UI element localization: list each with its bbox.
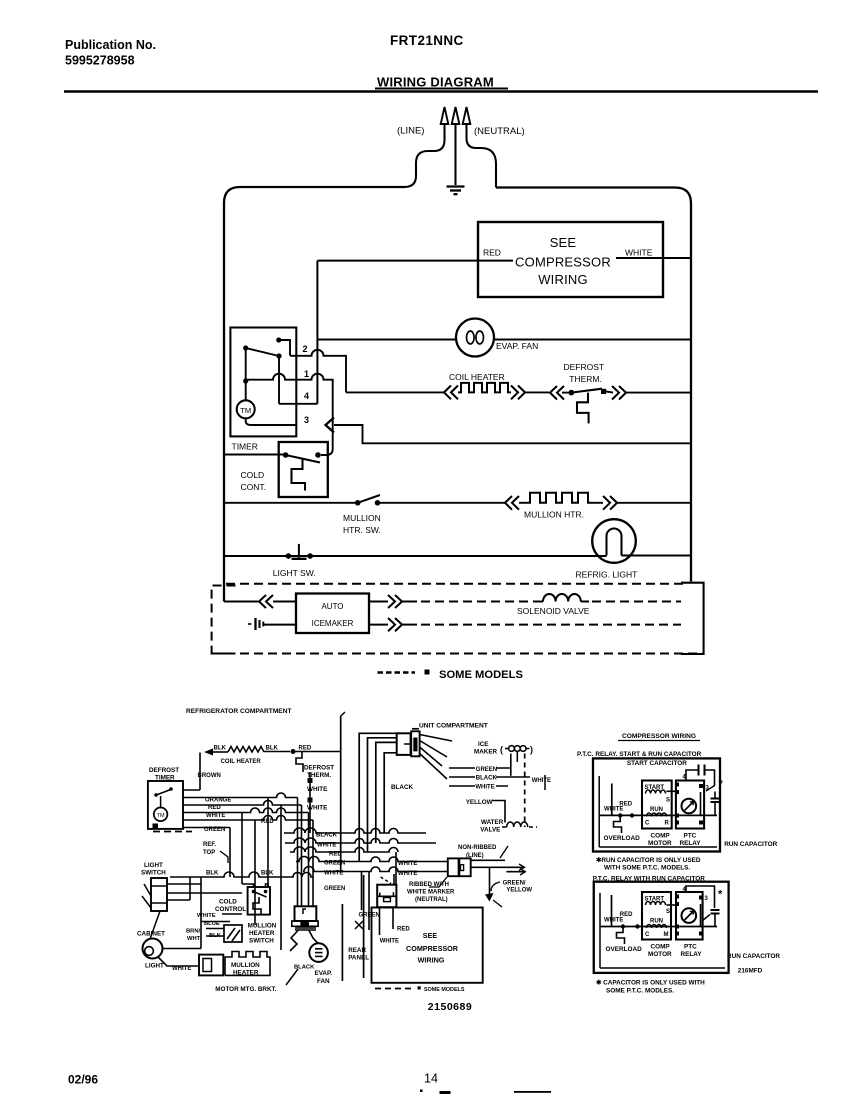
svg-text:WITH SOME P.T.C. MODELS.: WITH SOME P.T.C. MODELS. xyxy=(604,865,690,872)
wire light rail xyxy=(224,555,691,558)
label WATER VALVE xyxy=(480,819,503,834)
timer motor TM xyxy=(237,400,255,418)
svg-text:*: * xyxy=(719,778,724,790)
mullion heater bracket castellated xyxy=(225,952,270,976)
wire neutral-side plug lead xyxy=(467,138,497,188)
svg-text:BLACK: BLACK xyxy=(391,784,413,791)
svg-text:4: 4 xyxy=(304,391,309,401)
resistor coil heater pictorial xyxy=(213,747,290,753)
wire bundle nested L1 xyxy=(359,733,397,861)
see compressor wiring box xyxy=(372,908,483,983)
label CABINET xyxy=(137,931,165,938)
svg-text:02/96: 02/96 xyxy=(68,1073,98,1087)
svg-text:RED: RED xyxy=(483,248,501,258)
label BLK rail left xyxy=(206,871,219,877)
plug prong neutral arrow xyxy=(463,107,471,138)
label BLK right xyxy=(266,746,279,752)
pin number 1 xyxy=(304,369,309,379)
svg-text:AUTO: AUTO xyxy=(321,602,343,611)
svg-text:WHITE: WHITE xyxy=(398,861,417,867)
wire cord line out xyxy=(471,859,505,861)
svg-text:RUN CAPACITOR: RUN CAPACITOR xyxy=(724,841,777,848)
svg-text:WHITE: WHITE xyxy=(398,871,417,877)
wire bundle nested L2 xyxy=(368,738,397,852)
wire drop x255 to mullion switch xyxy=(254,820,256,925)
connector arrows left of mullion heater xyxy=(505,496,527,510)
label WHITE right xyxy=(532,778,551,784)
label BLACK stack xyxy=(476,776,498,782)
header model number xyxy=(390,33,464,48)
water valve coil xyxy=(502,822,537,827)
svg-text:SOME MODELS: SOME MODELS xyxy=(424,987,465,993)
wire bundle nested L4 xyxy=(384,753,397,833)
unit compartment connector body xyxy=(397,729,420,757)
svg-text:CABINET: CABINET xyxy=(137,931,165,938)
white lead 2 xyxy=(604,895,633,927)
svg-text:MOTOR MTG. BRKT.: MOTOR MTG. BRKT. xyxy=(215,986,276,993)
main wire 1 xyxy=(599,813,717,817)
label WHITE cabinet xyxy=(172,966,191,972)
label BLK small xyxy=(209,933,222,939)
label PTC RELAY START AND RUN CAPACITOR xyxy=(577,751,702,758)
footer date xyxy=(68,1073,98,1087)
defrost therm pictorial xyxy=(296,752,334,834)
svg-text:THERM.: THERM. xyxy=(569,374,602,384)
wire bundle nested L3 xyxy=(376,742,397,843)
svg-text:MAKER: MAKER xyxy=(474,749,498,756)
wire timer rail orange xyxy=(183,793,298,798)
lamp cabinet light xyxy=(143,939,163,959)
dashed left bracket xyxy=(212,586,236,654)
svg-text:NON-RIBBED: NON-RIBBED xyxy=(458,845,497,851)
dashed wire bottom rail to bracket xyxy=(421,624,681,626)
label REAR PANEL left xyxy=(348,921,369,962)
asterisk 2 xyxy=(718,889,723,901)
legend some models xyxy=(378,669,524,681)
svg-text:(LINE): (LINE) xyxy=(397,126,424,137)
svg-text:WHITE: WHITE xyxy=(307,805,327,812)
svg-text:SOME MODELS: SOME MODELS xyxy=(439,669,523,681)
plug prong line arrow xyxy=(441,107,449,140)
solenoid valve coil xyxy=(534,594,589,602)
label COMP MOTOR 2 xyxy=(648,944,672,959)
timer switch blade xyxy=(246,348,279,356)
wire contact 4 branch xyxy=(279,356,317,404)
label RED xyxy=(299,746,312,752)
svg-text:GREEN: GREEN xyxy=(324,886,345,892)
run capacitor symbol 1 xyxy=(711,792,720,816)
overload 2 xyxy=(606,927,643,954)
connector arrows right of coil heater xyxy=(511,386,549,400)
ground symbol xyxy=(447,187,465,195)
label START CAPACITOR xyxy=(627,760,687,767)
main cabinet outline right xyxy=(496,188,691,582)
svg-text:SWITCH: SWITCH xyxy=(249,938,274,945)
label SOLENOID VALVE xyxy=(517,606,590,616)
svg-text:DEFROST: DEFROST xyxy=(304,765,334,772)
wire yellow xyxy=(492,801,505,823)
label MULLION HTR. SW. xyxy=(343,513,381,535)
wire red to unit bundle xyxy=(296,751,341,753)
svg-text:BLACK: BLACK xyxy=(476,776,498,782)
defrost timer box xyxy=(230,328,296,437)
svg-text:MULLION HTR.: MULLION HTR. xyxy=(524,510,584,520)
svg-text:WHITE: WHITE xyxy=(206,813,225,819)
svg-text:RUN: RUN xyxy=(650,919,663,925)
node LINE label xyxy=(397,126,424,137)
svg-text:YELLOW: YELLOW xyxy=(466,799,493,806)
svg-text:DEFROST: DEFROST xyxy=(149,767,179,774)
svg-text:LIGHT: LIGHT xyxy=(145,963,164,970)
svg-text:REF.: REF. xyxy=(203,842,216,848)
svg-text:WHITE: WHITE xyxy=(307,786,327,793)
wire rail white2 xyxy=(303,867,447,878)
svg-text:Publication No.: Publication No. xyxy=(65,38,156,52)
capacitor loop 2 xyxy=(686,886,720,927)
svg-text:WHITE: WHITE xyxy=(532,778,551,784)
label EVAP FAN xyxy=(315,970,333,985)
wire timer rail green xyxy=(183,816,313,821)
wire timer rail green2 xyxy=(183,827,230,829)
small connector above compressor box xyxy=(377,885,396,908)
wire line-side plug lead xyxy=(404,140,445,187)
svg-text:FAN: FAN xyxy=(317,978,330,985)
svg-text:*: * xyxy=(718,889,723,901)
svg-text:COIL HEATER: COIL HEATER xyxy=(221,759,262,765)
svg-text:2: 2 xyxy=(303,344,308,354)
label COIL HEATER pictorial xyxy=(221,759,262,765)
svg-text:MULLION: MULLION xyxy=(343,513,381,523)
svg-text:EVAP. FAN: EVAP. FAN xyxy=(496,341,538,351)
cold control box xyxy=(279,442,328,497)
svg-text:DEFROST: DEFROST xyxy=(564,362,605,372)
cold control contacts xyxy=(283,452,321,462)
label COMP MOTOR 1 xyxy=(648,833,672,848)
label LIGHT cabinet xyxy=(145,963,164,970)
label ORANGE xyxy=(205,798,231,804)
wire cord ground drop xyxy=(485,867,502,907)
wire evap fan rail xyxy=(317,339,691,341)
comp motor box 2 xyxy=(642,892,671,940)
timer contact dots xyxy=(243,337,282,383)
label RUN CAPACITOR 1 xyxy=(724,841,777,848)
label RED timer xyxy=(208,805,221,811)
note run capacitor only used xyxy=(596,857,701,872)
main wire 2 xyxy=(600,924,717,928)
wire cord out arrows xyxy=(471,864,526,875)
svg-text:P.T.C. RELAY. START & RUN CAPA: P.T.C. RELAY. START & RUN CAPACITOR xyxy=(577,751,702,758)
svg-text:ICEMAKER: ICEMAKER xyxy=(312,619,354,628)
label MOTOR MTG. BRKT. xyxy=(215,986,276,993)
label BROWN xyxy=(198,773,221,779)
cold control pictorial xyxy=(248,887,270,915)
connector arrows right of defrost therm xyxy=(612,386,691,400)
white lead 1 xyxy=(604,784,633,816)
svg-text:OVERLOAD: OVERLOAD xyxy=(606,946,643,953)
footer mark xyxy=(420,1090,423,1093)
dashed some-models bottom rail xyxy=(212,653,703,655)
label LIGHT SWITCH xyxy=(141,862,166,877)
label NON-RIBBED (LINE) xyxy=(458,845,508,859)
wire timer rail white xyxy=(183,808,309,813)
wire dashes into small connector xyxy=(381,874,394,885)
main cabinet outline left xyxy=(224,187,405,602)
wire light switch mid xyxy=(168,892,242,894)
label RED mid xyxy=(261,819,274,825)
svg-text:(NEUTRAL): (NEUTRAL) xyxy=(474,126,525,137)
wires at icemaker stack xyxy=(449,752,545,791)
svg-text:PTC: PTC xyxy=(684,944,697,951)
asterisk 1 xyxy=(719,778,724,790)
wire cabinet light to bus xyxy=(158,949,201,967)
wire contact 3 to right edge xyxy=(334,425,691,443)
svg-text:RED: RED xyxy=(208,805,221,811)
svg-text:COMP: COMP xyxy=(651,944,671,951)
label BLK rail right xyxy=(261,871,274,877)
mullion heater switch pictorial xyxy=(224,925,242,942)
connector arrows left of coil heater xyxy=(444,386,458,400)
node NEUTRAL label xyxy=(474,126,525,137)
svg-text:M: M xyxy=(664,932,669,938)
svg-text:): ) xyxy=(530,745,533,755)
wire rail black xyxy=(284,828,426,839)
wire coil heater rail left xyxy=(346,391,444,393)
svg-text:HEATER: HEATER xyxy=(249,930,275,937)
wire drop x242 to cold control left xyxy=(241,813,243,885)
light switch pictorial xyxy=(142,878,167,911)
wire timer rail red xyxy=(183,801,302,806)
dashed wire to solenoid xyxy=(421,601,534,603)
label COLD CONT. xyxy=(241,470,267,492)
label GREEN above plug xyxy=(324,886,345,892)
junction dot red xyxy=(291,749,296,754)
svg-text:WHT: WHT xyxy=(187,936,201,942)
right bracket xyxy=(681,583,704,654)
svg-text:REFRIGERATOR COMPARTMENT: REFRIGERATOR COMPARTMENT xyxy=(186,708,292,715)
wire mullion rail middle xyxy=(378,502,506,504)
wire drop x268 to cold control xyxy=(267,798,269,888)
terminal 4 label xyxy=(683,775,687,781)
label PTC RELAY 2 xyxy=(681,944,703,959)
ground icemaker xyxy=(248,618,296,630)
svg-text:MULLION: MULLION xyxy=(248,923,277,930)
motor evap fan xyxy=(456,319,494,357)
svg-text:BLK: BLK xyxy=(214,746,227,752)
label MULLION HTR. xyxy=(524,510,584,520)
svg-text:TIMER: TIMER xyxy=(232,442,258,452)
label DEFROST TIMER (pictorial) xyxy=(149,767,179,782)
svg-text:BROWN: BROWN xyxy=(198,773,221,779)
svg-text:PANEL: PANEL xyxy=(348,955,369,962)
svg-text:CONT.: CONT. xyxy=(241,482,267,492)
svg-text:SEE: SEE xyxy=(550,235,577,250)
wire timer common vertical to TM xyxy=(245,348,247,400)
label GREEN YELLOW cord xyxy=(491,881,532,894)
label WHITE stack xyxy=(475,785,494,791)
svg-text:216MFD: 216MFD xyxy=(738,968,763,975)
start capacitor symbol 1 xyxy=(686,765,715,792)
svg-text:PTC: PTC xyxy=(684,833,697,840)
note capacitor only used 2 xyxy=(596,980,705,995)
wires connector to icemaker xyxy=(420,735,452,780)
label COIL HEATER xyxy=(449,372,505,382)
svg-text:EVAP.: EVAP. xyxy=(315,970,333,977)
legend some models small xyxy=(375,986,465,993)
label BLACK unit xyxy=(391,784,413,791)
terminal 3 label xyxy=(706,786,710,792)
label MULLION HEATER xyxy=(231,962,260,977)
svg-text:REFRIG. LIGHT: REFRIG. LIGHT xyxy=(576,570,638,580)
mullion heater switch xyxy=(355,495,380,506)
icemaker coil symbol xyxy=(500,745,533,755)
connector arrows into icemaker xyxy=(259,595,296,608)
wire left edge to cold control xyxy=(224,454,286,456)
svg-text:COMPRESSOR: COMPRESSOR xyxy=(515,255,611,270)
svg-text:RELAY: RELAY xyxy=(681,951,703,958)
svg-text:3: 3 xyxy=(705,896,709,902)
label RIBBED WITH WHITE MARKER NEUTRAL xyxy=(407,877,455,903)
svg-text:RED: RED xyxy=(299,746,312,752)
connector arrow on contact 3 wire xyxy=(326,418,335,433)
svg-text:GREEN/: GREEN/ xyxy=(503,881,526,887)
svg-text:(: ( xyxy=(500,745,503,755)
svg-text:HEATER: HEATER xyxy=(233,970,259,977)
label PTC RELAY WITH RUN CAPACITOR xyxy=(593,876,706,883)
svg-text:UNIT COMPARTMENT: UNIT COMPARTMENT xyxy=(419,723,488,730)
dashed wire solenoid to bracket xyxy=(592,601,681,603)
svg-text:2150689: 2150689 xyxy=(428,1001,472,1013)
dashed vertical icemaker to water valve xyxy=(524,754,526,828)
pin number 3 xyxy=(304,415,309,425)
svg-text:WHITE: WHITE xyxy=(197,913,216,919)
label WHITE in box xyxy=(380,939,399,945)
light switch xyxy=(286,544,313,559)
svg-text:SOLENOID VALVE: SOLENOID VALVE xyxy=(517,606,590,616)
defrost timer pictorial box xyxy=(148,781,183,829)
svg-text:COMP: COMP xyxy=(651,833,671,840)
wire bundle main vertical xyxy=(340,716,342,872)
svg-text:S: S xyxy=(666,909,670,915)
defrost thermostat switch xyxy=(562,389,613,396)
label WHITE small xyxy=(197,913,216,919)
label REFRIG. LIGHT xyxy=(576,570,638,580)
svg-text:START CAPACITOR: START CAPACITOR xyxy=(627,760,687,767)
plug prong ground arrow xyxy=(452,107,460,185)
svg-text:COLD: COLD xyxy=(241,470,265,480)
svg-text:MOTOR: MOTOR xyxy=(648,840,672,847)
svg-text:ICE: ICE xyxy=(478,741,489,748)
wire timer to coil heater riser xyxy=(183,753,200,791)
label DEFROST THERM. xyxy=(564,362,605,384)
svg-text:RED: RED xyxy=(397,927,410,933)
svg-text:REAR: REAR xyxy=(348,947,366,954)
dashed some-models top rail xyxy=(226,583,688,585)
svg-text:BLK: BLK xyxy=(266,746,279,752)
wire plug to fan motor xyxy=(290,931,318,952)
pin number 2 xyxy=(303,344,308,354)
svg-text:ORANGE: ORANGE xyxy=(205,798,231,804)
wire blk cross rail xyxy=(170,872,313,877)
defrost therm sensor hook xyxy=(577,393,589,424)
svg-text:WIRING: WIRING xyxy=(538,272,588,287)
svg-text:CONTROL: CONTROL xyxy=(215,906,246,913)
wire mullion rail left xyxy=(224,502,356,504)
label WHITE timer xyxy=(206,813,225,819)
wire white from compressor box to right edge xyxy=(616,257,691,259)
label GREEN at compressor box xyxy=(359,913,380,919)
wire rail red xyxy=(290,847,398,885)
svg-text:LIGHT SW.: LIGHT SW. xyxy=(273,568,316,578)
wire TM to contact 3 xyxy=(246,418,297,425)
header rule xyxy=(64,90,818,92)
svg-text:WATER: WATER xyxy=(481,819,504,826)
wire contact 2 to coil heater rail xyxy=(290,350,346,393)
svg-text:COIL HEATER: COIL HEATER xyxy=(449,372,505,382)
svg-text:WHITE: WHITE xyxy=(604,918,623,924)
label BLUE xyxy=(204,921,220,927)
svg-text:WHITE: WHITE xyxy=(604,807,623,813)
evap fan plug prongs xyxy=(298,798,314,907)
label GREEN stack xyxy=(476,767,497,773)
svg-text:TOP: TOP xyxy=(203,850,215,856)
ptc relay box 1 xyxy=(667,781,705,829)
label MULLION HEATER SWITCH xyxy=(248,923,277,945)
svg-text:1: 1 xyxy=(304,369,309,379)
resistor coil heater xyxy=(458,383,511,393)
wire drops into cold control xyxy=(242,884,268,887)
svg-text:C: C xyxy=(645,821,650,827)
svg-text:S: S xyxy=(666,798,670,804)
svg-text:SOME P.T.C. MODLES.: SOME P.T.C. MODLES. xyxy=(606,988,674,995)
auto icemaker box xyxy=(296,594,369,634)
wires into see-compressor box xyxy=(362,872,394,936)
svg-text:WHITE MARKER: WHITE MARKER xyxy=(407,890,455,896)
compressor diagram 2 outer box xyxy=(594,882,729,973)
label WHITE at compressor box xyxy=(625,248,653,258)
svg-text:5995278958: 5995278958 xyxy=(65,54,135,68)
label ICE MAKER xyxy=(474,741,498,756)
svg-text:RELAY: RELAY xyxy=(680,840,702,847)
wire contact 1 to cold control xyxy=(246,374,333,455)
svg-text:VALVE: VALVE xyxy=(480,827,500,834)
wire drop x230 xyxy=(229,828,231,878)
svg-text:BRN/: BRN/ xyxy=(186,929,201,935)
compressor diagram 1 outer box xyxy=(593,758,720,851)
overload 1 xyxy=(604,815,641,842)
label RED in box xyxy=(397,927,410,933)
label EVAP. FAN xyxy=(496,341,538,351)
connector arrows right of mullion heater xyxy=(591,496,691,510)
comp motor box 1 xyxy=(642,781,672,829)
label BRN WHT xyxy=(186,929,201,943)
label BLK left xyxy=(214,746,227,752)
wire icemaker out bottom with arrows xyxy=(369,618,417,631)
ptc relay box 2 xyxy=(667,892,704,940)
label PTC RELAY 1 xyxy=(680,833,702,848)
wire bundle top bend xyxy=(341,712,345,716)
label 216MFD xyxy=(738,968,763,975)
svg-text:COMPRESSOR: COMPRESSOR xyxy=(406,944,459,953)
svg-text:COLD: COLD xyxy=(219,899,237,906)
svg-text:WHITE: WHITE xyxy=(172,966,191,972)
pin number 4 xyxy=(304,391,309,401)
resistor mullion heater xyxy=(527,493,591,503)
label TIMER xyxy=(232,442,258,452)
label COLD CONTROL pictorial xyxy=(215,899,246,914)
terminal labels 2 xyxy=(683,887,709,902)
svg-text:R: R xyxy=(665,821,670,827)
svg-text:OVERLOAD: OVERLOAD xyxy=(604,835,641,842)
